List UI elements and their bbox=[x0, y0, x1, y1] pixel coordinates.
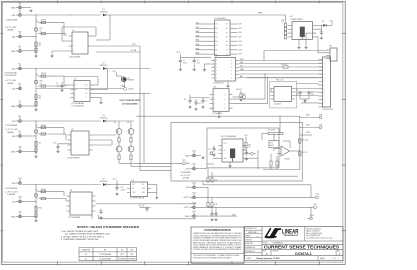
svg-text:Phone: (408)432-1900: Phone: (408)432-1900 bbox=[306, 233, 322, 235]
svg-text:0.5A MAX: 0.5A MAX bbox=[7, 193, 16, 196]
svg-text:DWG NO.: DWG NO. bbox=[273, 250, 280, 252]
svg-text:C3: C3 bbox=[197, 60, 199, 62]
svg-text:R7 1M: R7 1M bbox=[41, 125, 46, 127]
svg-text:NC: NC bbox=[132, 188, 134, 190]
svg-text:V: V bbox=[216, 64, 217, 66]
svg-text:10uF: 10uF bbox=[197, 62, 201, 64]
svg-text:OUT: OUT bbox=[85, 85, 88, 87]
svg-text:S: S bbox=[231, 71, 232, 73]
svg-text:LT1790ACS6: LT1790ACS6 bbox=[212, 112, 222, 115]
svg-text:LT1787HVMS8: LT1787HVMS8 bbox=[5, 188, 17, 190]
svg-text:U6 LTC6943IMS8 A: U6 LTC6943IMS8 A bbox=[221, 135, 237, 138]
svg-text:E14: E14 bbox=[193, 151, 196, 153]
svg-text:+5V TO +48V: +5V TO +48V bbox=[5, 27, 17, 29]
svg-text:REV: REV bbox=[337, 250, 340, 252]
svg-text:CH0: CH0 bbox=[239, 24, 242, 26]
svg-text:CH1: CH1 bbox=[239, 28, 242, 30]
svg-text:E17: E17 bbox=[193, 193, 196, 195]
svg-text:IN1: IN1 bbox=[215, 28, 217, 30]
svg-text:JP3: JP3 bbox=[130, 250, 133, 252]
svg-text:+: + bbox=[73, 36, 74, 38]
svg-text:R6: R6 bbox=[39, 95, 41, 97]
svg-text:NC: NC bbox=[86, 93, 88, 95]
svg-text:E6: E6 bbox=[19, 84, 21, 86]
svg-text:S: S bbox=[231, 64, 232, 66]
svg-text:C9: C9 bbox=[142, 205, 144, 207]
svg-text:IN6: IN6 bbox=[215, 50, 217, 52]
svg-text:VIN: VIN bbox=[132, 184, 134, 186]
svg-text:CH4: CH4 bbox=[239, 41, 242, 43]
svg-text:LT6100CMS8: LT6100CMS8 bbox=[6, 20, 17, 22]
svg-text:SCL: SCL bbox=[240, 65, 243, 67]
svg-text:LT1880: LT1880 bbox=[284, 159, 290, 161]
svg-text:CH: CH bbox=[226, 24, 228, 26]
svg-text:OF: OF bbox=[334, 258, 336, 260]
svg-text:6101: 6101 bbox=[270, 145, 274, 147]
svg-text:TP7: TP7 bbox=[183, 160, 186, 162]
svg-text:R13: R13 bbox=[282, 20, 285, 22]
svg-text:D5: D5 bbox=[322, 21, 324, 23]
svg-text:LTC6101ACMS8: LTC6101ACMS8 bbox=[122, 102, 138, 105]
svg-text:+: + bbox=[216, 153, 217, 155]
svg-text:LT6100CMS8: LT6100CMS8 bbox=[69, 57, 80, 59]
svg-text:E12: E12 bbox=[19, 197, 22, 199]
svg-text:C6: C6 bbox=[184, 99, 186, 101]
svg-text:LTC6101BCM8: LTC6101BCM8 bbox=[4, 75, 16, 77]
svg-text:S: S bbox=[225, 103, 226, 105]
svg-text:GND: GND bbox=[11, 106, 16, 108]
svg-text:LTC6101ACM8/: LTC6101ACM8/ bbox=[4, 71, 17, 74]
svg-text:LTC6101BCM8: LTC6101BCM8 bbox=[72, 106, 84, 108]
svg-text:DESIGNER: GT: DESIGNER: GT bbox=[245, 251, 255, 253]
svg-text:E7: E7 bbox=[19, 101, 21, 103]
svg-text:IN2: IN2 bbox=[215, 32, 217, 34]
svg-text:10: 10 bbox=[40, 83, 42, 85]
svg-text:GND: GND bbox=[11, 7, 16, 9]
svg-text:CS: CS bbox=[240, 76, 242, 78]
svg-text:CH7: CH7 bbox=[239, 54, 242, 56]
svg-text:TP: TP bbox=[254, 154, 256, 156]
svg-text:+2.7V TO +60V: +2.7V TO +60V bbox=[5, 191, 19, 193]
svg-text:U10: U10 bbox=[213, 87, 216, 89]
svg-text:V+: V+ bbox=[75, 85, 77, 87]
svg-text:E3: E3 bbox=[19, 32, 21, 34]
svg-text:CH5: CH5 bbox=[239, 45, 242, 47]
svg-text:CH: CH bbox=[226, 41, 228, 43]
svg-text:ENGINEER: JH: ENGINEER: JH bbox=[245, 247, 255, 249]
svg-text:CMPD914: CMPD914 bbox=[100, 65, 108, 67]
svg-text:C12: C12 bbox=[208, 149, 211, 151]
svg-text:1K: 1K bbox=[248, 147, 250, 149]
svg-text:Q2: Q2 bbox=[127, 122, 129, 124]
svg-text:CH: CH bbox=[226, 50, 228, 52]
svg-text:NC: NC bbox=[75, 89, 77, 91]
svg-text:E10: E10 bbox=[19, 147, 22, 149]
svg-text:+5V MAX: +5V MAX bbox=[182, 177, 190, 180]
svg-text:LTC6101BCM8: LTC6101BCM8 bbox=[99, 259, 111, 261]
svg-text:S: S bbox=[225, 108, 226, 110]
svg-text:DM3: DM3 bbox=[306, 132, 310, 134]
svg-text:IN4: IN4 bbox=[215, 41, 217, 43]
svg-text:R10: R10 bbox=[39, 207, 42, 209]
svg-text:1A MAX: 1A MAX bbox=[7, 131, 14, 134]
svg-text:LT1787HVMS8: LT1787HVMS8 bbox=[5, 125, 17, 127]
svg-text:LT1787HVMS8: LT1787HVMS8 bbox=[68, 217, 80, 219]
svg-text:R14 100: R14 100 bbox=[281, 64, 287, 66]
svg-text:LTC1694CS5: LTC1694CS5 bbox=[213, 83, 224, 85]
svg-text:NOTES: UNLESS OTHERWISE SPECIF: NOTES: UNLESS OTHERWISE SPECIFIED bbox=[77, 226, 139, 229]
svg-text:C10: C10 bbox=[121, 187, 124, 189]
svg-text:GND: GND bbox=[11, 216, 16, 218]
svg-text:CH: CH bbox=[226, 37, 228, 39]
svg-text:GND: GND bbox=[185, 155, 190, 157]
svg-text:-OUT5: -OUT5 bbox=[183, 207, 190, 209]
svg-text:24LC025: 24LC025 bbox=[274, 104, 281, 106]
svg-text:VERSION: VERSION bbox=[82, 250, 91, 252]
svg-text:CH2: CH2 bbox=[239, 32, 242, 34]
svg-text:SIZE: SIZE bbox=[263, 250, 266, 252]
svg-text:R16: R16 bbox=[40, 81, 43, 83]
svg-text:R19: R19 bbox=[248, 144, 251, 146]
svg-text:R2 1M: R2 1M bbox=[41, 20, 46, 22]
svg-text:E18: E18 bbox=[193, 203, 196, 205]
svg-text:LTC6101ACM8: LTC6101ACM8 bbox=[72, 102, 84, 105]
svg-text:Fax: (408)434-0507: Fax: (408)434-0507 bbox=[306, 235, 320, 237]
svg-text:5A MAX: 5A MAX bbox=[7, 29, 14, 32]
svg-text:LTC6943MS8: LTC6943MS8 bbox=[180, 172, 190, 174]
svg-text:RS 0.033: RS 0.033 bbox=[268, 130, 275, 132]
svg-text:U4: U4 bbox=[70, 190, 72, 192]
svg-text:Q1: Q1 bbox=[114, 122, 116, 124]
svg-text:V: V bbox=[214, 103, 215, 105]
svg-text:STUFFED: STUFFED bbox=[118, 259, 127, 261]
svg-text:TP3: TP3 bbox=[243, 94, 246, 96]
svg-text:R11 1.2K: R11 1.2K bbox=[302, 140, 309, 142]
svg-text:S: S bbox=[225, 99, 226, 101]
svg-text:F: F bbox=[73, 46, 74, 48]
svg-text:GND: GND bbox=[224, 158, 227, 160]
svg-text:NC: NC bbox=[86, 89, 88, 91]
svg-text:+5V TO +12V: +5V TO +12V bbox=[180, 175, 191, 177]
svg-text:* NOT STUFFED WITH: * NOT STUFFED WITH bbox=[119, 100, 141, 102]
svg-text:GND: GND bbox=[11, 51, 16, 53]
svg-text:1uF: 1uF bbox=[56, 86, 59, 88]
svg-text:R18: R18 bbox=[215, 204, 218, 206]
svg-text:RP1 5.1K: RP1 5.1K bbox=[276, 80, 284, 82]
svg-text:CMPD914: CMPD914 bbox=[100, 117, 108, 119]
svg-text:CH6: CH6 bbox=[239, 49, 242, 51]
svg-text:V: V bbox=[214, 99, 215, 101]
svg-text:1A MAX: 1A MAX bbox=[7, 82, 14, 85]
svg-text:E1: E1 bbox=[19, 3, 21, 5]
svg-text:CUSTOMER NOTICE: CUSTOMER NOTICE bbox=[204, 228, 231, 232]
svg-text:10: 10 bbox=[282, 22, 284, 24]
svg-text:VOUT: VOUT bbox=[132, 192, 136, 194]
svg-text:1. ALL RESISTORS ARE IN OHMS,: 1. ALL RESISTORS ARE IN OHMS, 0603. bbox=[61, 230, 99, 233]
svg-text:C4: C4 bbox=[296, 90, 298, 92]
svg-text:CH: CH bbox=[226, 54, 228, 56]
svg-text:J1 HD2X7-100: J1 HD2X7-100 bbox=[322, 109, 333, 111]
svg-text:SHEET: SHEET bbox=[320, 258, 325, 260]
svg-text:U2: U2 bbox=[74, 79, 76, 81]
svg-text:C8: C8 bbox=[121, 250, 123, 252]
svg-text:E9: E9 bbox=[19, 131, 21, 133]
svg-text:S: S bbox=[231, 74, 232, 76]
svg-text:E5: E5 bbox=[19, 64, 21, 66]
svg-text:IN3: IN3 bbox=[215, 37, 217, 39]
svg-text:CMPD914: CMPD914 bbox=[100, 181, 108, 183]
svg-text:CH: CH bbox=[226, 45, 228, 47]
svg-text:V: V bbox=[214, 108, 215, 110]
svg-text:E15: E15 bbox=[193, 164, 196, 166]
svg-text:E19: E19 bbox=[193, 211, 196, 213]
svg-text:PWR: PWR bbox=[258, 13, 263, 15]
svg-text:V: V bbox=[214, 94, 215, 96]
svg-text:TP4: TP4 bbox=[319, 114, 322, 116]
svg-text:MON: MON bbox=[240, 59, 244, 61]
svg-text:V: V bbox=[216, 71, 217, 73]
svg-text:TP10: TP10 bbox=[310, 215, 314, 217]
svg-text:R3: R3 bbox=[39, 43, 41, 45]
svg-text:1: 1 bbox=[338, 258, 339, 260]
svg-text:GND: GND bbox=[142, 188, 145, 190]
svg-text:C8 OPT: C8 OPT bbox=[236, 89, 242, 91]
svg-text:10: 10 bbox=[40, 30, 42, 32]
svg-text:GND: GND bbox=[11, 151, 16, 153]
svg-text:E16: E16 bbox=[193, 182, 196, 184]
svg-text:GND: GND bbox=[185, 216, 190, 218]
svg-text:U7 74HC4051: U7 74HC4051 bbox=[215, 18, 226, 20]
svg-text:+2.7V TO +60V: +2.7V TO +60V bbox=[5, 129, 19, 131]
svg-text:SMB: SMB bbox=[240, 69, 243, 71]
svg-text:2. INSTALL SHUNT ON JP1 & JP2: 2. INSTALL SHUNT ON JP1 & JP2 PIN 3 AND … bbox=[61, 235, 105, 238]
svg-text:U5: U5 bbox=[132, 180, 134, 182]
svg-text:V: V bbox=[73, 51, 74, 53]
svg-text:0.1uF: 0.1uF bbox=[183, 62, 187, 64]
svg-text:1: 1 bbox=[331, 258, 332, 260]
svg-text:R8: R8 bbox=[39, 142, 41, 144]
svg-text:R9 1M: R9 1M bbox=[41, 189, 46, 191]
svg-text:NC: NC bbox=[142, 184, 144, 186]
svg-text:C2: C2 bbox=[183, 60, 185, 62]
svg-text:JP1: JP1 bbox=[329, 46, 332, 48]
svg-text:DM1: DM1 bbox=[306, 115, 310, 117]
svg-text:V: V bbox=[216, 67, 217, 69]
svg-text:3. THERE ARE 2 ASSEMBLY VERSI: 3. THERE ARE 2 ASSEMBLY VERSIONS: bbox=[61, 238, 99, 241]
svg-text:+OUT5: +OUT5 bbox=[183, 197, 190, 199]
svg-text:IN0: IN0 bbox=[215, 24, 217, 26]
svg-text:Q5: Q5 bbox=[127, 77, 129, 79]
svg-text:V: V bbox=[216, 78, 217, 80]
svg-text:DM2: DM2 bbox=[306, 125, 310, 127]
svg-text:CH: CH bbox=[226, 28, 228, 30]
svg-text:FMMT619: FMMT619 bbox=[127, 80, 134, 82]
svg-text:E2: E2 bbox=[19, 10, 21, 12]
svg-text:U1: U1 bbox=[72, 30, 74, 32]
svg-text:+5V TO +48V: +5V TO +48V bbox=[5, 80, 17, 82]
svg-text:Monday, September 15, 2003: Monday, September 15, 2003 bbox=[257, 257, 280, 260]
svg-text:OUT: OUT bbox=[224, 143, 227, 145]
svg-text:OUT1: OUT1 bbox=[132, 44, 136, 46]
svg-text:LT1460DCMS8-5: LT1460DCMS8-5 bbox=[290, 19, 303, 21]
svg-text:E11: E11 bbox=[19, 178, 22, 180]
svg-text:U9: U9 bbox=[215, 56, 217, 58]
svg-text:1uF: 1uF bbox=[199, 103, 202, 105]
svg-text:TP8: TP8 bbox=[316, 194, 319, 196]
svg-text:IN5: IN5 bbox=[215, 45, 217, 47]
svg-text:V: V bbox=[216, 74, 217, 76]
svg-text:TP5: TP5 bbox=[319, 124, 322, 126]
svg-text:DC907A-1: DC907A-1 bbox=[295, 252, 312, 256]
svg-text:TECHNOLOGY: TECHNOLOGY bbox=[283, 235, 299, 237]
svg-text:CH3: CH3 bbox=[239, 37, 242, 39]
svg-text:S: S bbox=[231, 67, 232, 69]
svg-text:GND: GND bbox=[142, 192, 145, 194]
svg-text:S: S bbox=[225, 94, 226, 96]
svg-text:E13: E13 bbox=[19, 212, 22, 214]
svg-text:R15: R15 bbox=[40, 28, 43, 30]
svg-text:S: S bbox=[231, 60, 232, 62]
svg-text:CMPD914: CMPD914 bbox=[100, 11, 108, 13]
svg-text:CH: CH bbox=[226, 32, 228, 34]
svg-text:S: S bbox=[231, 78, 232, 80]
svg-text:CHECKED: CHECKED bbox=[245, 239, 252, 241]
svg-text:U3: U3 bbox=[71, 129, 73, 131]
svg-text:E8: E8 bbox=[19, 116, 21, 118]
svg-text:R5 1M: R5 1M bbox=[41, 73, 46, 75]
svg-text:TP9: TP9 bbox=[314, 204, 317, 206]
svg-text:LT1787HVMS8: LT1787HVMS8 bbox=[67, 158, 79, 160]
svg-text:STUFFED: STUFFED bbox=[128, 259, 137, 261]
svg-text:LTC6101ACM8: LTC6101ACM8 bbox=[99, 253, 111, 256]
svg-text:OUT2M: OUT2M bbox=[128, 89, 134, 91]
svg-text:C7: C7 bbox=[206, 101, 208, 103]
svg-text:IN: IN bbox=[224, 150, 225, 152]
svg-text:V: V bbox=[216, 60, 217, 62]
svg-text:0.47uF: 0.47uF bbox=[121, 190, 126, 192]
svg-text:E4: E4 bbox=[19, 46, 21, 48]
svg-text:ALL CAPACITORS ARE IN MICROFAR: ALL CAPACITORS ARE IN MICROFARADS, 0603. bbox=[65, 233, 111, 236]
